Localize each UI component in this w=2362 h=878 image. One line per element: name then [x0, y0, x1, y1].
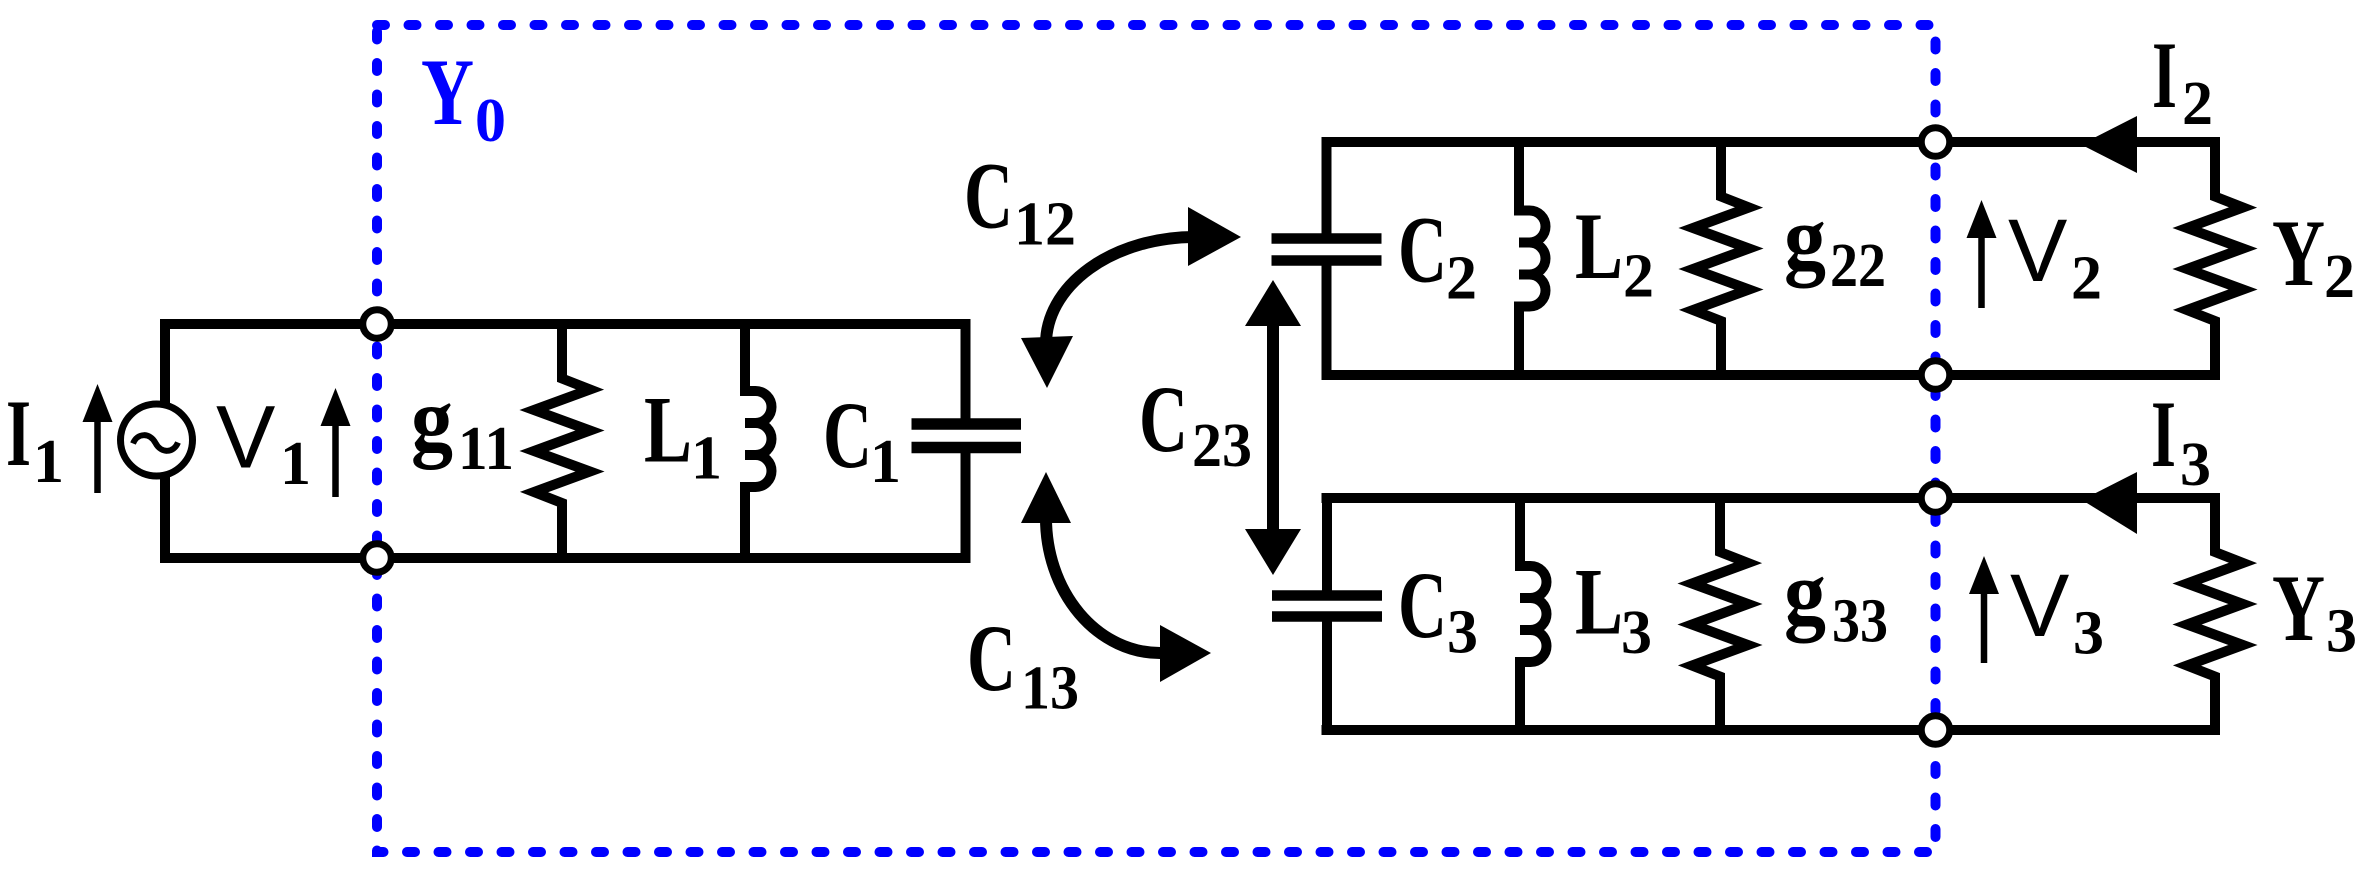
svg-text:2: 2	[1446, 245, 1477, 313]
wire top rail tank1	[160, 319, 971, 329]
svg-text:V: V	[2008, 200, 2067, 300]
svg-text:13: 13	[1021, 655, 1079, 723]
svg-text:Y: Y	[421, 39, 474, 145]
label I1	[6, 380, 64, 496]
load resistor Y2	[2187, 142, 2243, 375]
label L1	[644, 377, 722, 493]
inductor L2	[1519, 142, 1546, 375]
capacitor C1	[912, 324, 1022, 558]
svg-text:C: C	[1398, 552, 1447, 658]
node tank3 bottom	[1921, 716, 1950, 745]
voltage arrow V2	[1967, 200, 1997, 308]
label g11	[411, 369, 514, 483]
tank3 top rail	[1322, 493, 2221, 503]
voltage arrow V3	[1969, 556, 1999, 663]
label I2	[2152, 22, 2213, 138]
svg-text:g: g	[1784, 188, 1826, 289]
coupling arrow C23	[1245, 280, 1301, 575]
svg-text:C: C	[964, 143, 1013, 249]
current arrow I1	[83, 384, 113, 493]
resistor g11	[534, 324, 590, 558]
label g33	[1784, 543, 1888, 656]
label V2	[2008, 200, 2102, 313]
svg-text:C: C	[823, 382, 872, 488]
tank3 bottom rail	[1322, 725, 2221, 735]
svg-text:L: L	[1575, 549, 1623, 655]
resistor g22	[1693, 142, 1749, 375]
label C23	[1139, 366, 1252, 480]
node tank3 top	[1921, 484, 1950, 513]
svg-text:1: 1	[691, 425, 722, 493]
svg-text:V: V	[2010, 555, 2069, 655]
label C12	[964, 143, 1076, 259]
svg-text:C: C	[967, 605, 1016, 711]
load resistor Y3	[2187, 498, 2243, 730]
svg-text:0: 0	[475, 87, 506, 155]
label C2	[1398, 197, 1477, 313]
svg-text:12: 12	[1014, 191, 1076, 259]
label C13	[967, 605, 1079, 723]
svg-text:1: 1	[870, 428, 901, 496]
svg-text:23: 23	[1192, 412, 1252, 480]
coupling arrow C12	[1021, 207, 1241, 388]
ac current source I1	[121, 404, 193, 476]
node top-left	[363, 310, 392, 339]
svg-text:11: 11	[458, 415, 514, 483]
capacitor C2	[1272, 142, 1382, 375]
capacitor C3	[1272, 498, 1382, 730]
inductor L1	[745, 324, 772, 558]
source V1 wires	[160, 319, 170, 563]
voltage arrow V1	[321, 388, 351, 497]
label V1	[216, 387, 311, 499]
svg-text:Y: Y	[2272, 555, 2325, 661]
svg-text:2: 2	[2182, 70, 2213, 138]
svg-text:1: 1	[280, 430, 311, 498]
svg-text:C: C	[1398, 197, 1447, 303]
dashed box Y0 boundary	[377, 25, 1936, 852]
svg-text:3: 3	[2326, 598, 2357, 666]
label L2	[1575, 193, 1654, 311]
svg-text:2: 2	[1623, 243, 1654, 311]
svg-text:22: 22	[1830, 232, 1886, 300]
label V3	[2010, 555, 2104, 668]
current arrowhead I2	[2081, 116, 2137, 173]
label C1	[823, 382, 901, 496]
label Y3	[2272, 555, 2357, 666]
node tank2 top	[1921, 128, 1950, 157]
tank2 top rail	[1322, 137, 2221, 147]
svg-text:2: 2	[2071, 245, 2102, 313]
label Y2	[2272, 200, 2355, 311]
label Y0	[421, 39, 506, 155]
label g22	[1784, 188, 1886, 301]
svg-text:33: 33	[1832, 588, 1888, 656]
svg-text:I: I	[2152, 22, 2177, 128]
svg-text:I: I	[2151, 381, 2176, 487]
svg-text:Y: Y	[2272, 200, 2325, 306]
svg-text:g: g	[1784, 543, 1826, 644]
node bottom-left	[363, 544, 392, 573]
svg-text:L: L	[644, 377, 692, 483]
svg-text:g: g	[411, 369, 453, 470]
svg-text:V: V	[216, 387, 275, 487]
node tank2 bottom	[1921, 361, 1950, 390]
svg-text:1: 1	[33, 428, 64, 496]
inductor L3	[1520, 498, 1547, 730]
svg-text:3: 3	[1447, 599, 1478, 667]
coupling arrow C13	[1021, 472, 1211, 682]
svg-text:2: 2	[2324, 243, 2355, 311]
tank2 bottom rail	[1322, 370, 2221, 380]
label I3	[2151, 381, 2211, 499]
svg-text:3: 3	[2073, 600, 2104, 668]
current arrowhead I3	[2082, 472, 2137, 534]
label C3	[1398, 552, 1478, 667]
svg-text:3: 3	[1621, 599, 1652, 667]
wire bottom rail tank1	[160, 553, 971, 563]
resistor g33	[1692, 498, 1748, 730]
svg-text:I: I	[6, 380, 31, 486]
svg-text:3: 3	[2180, 431, 2211, 499]
svg-text:L: L	[1575, 193, 1623, 299]
svg-text:C: C	[1139, 366, 1188, 472]
label L3	[1575, 549, 1652, 668]
